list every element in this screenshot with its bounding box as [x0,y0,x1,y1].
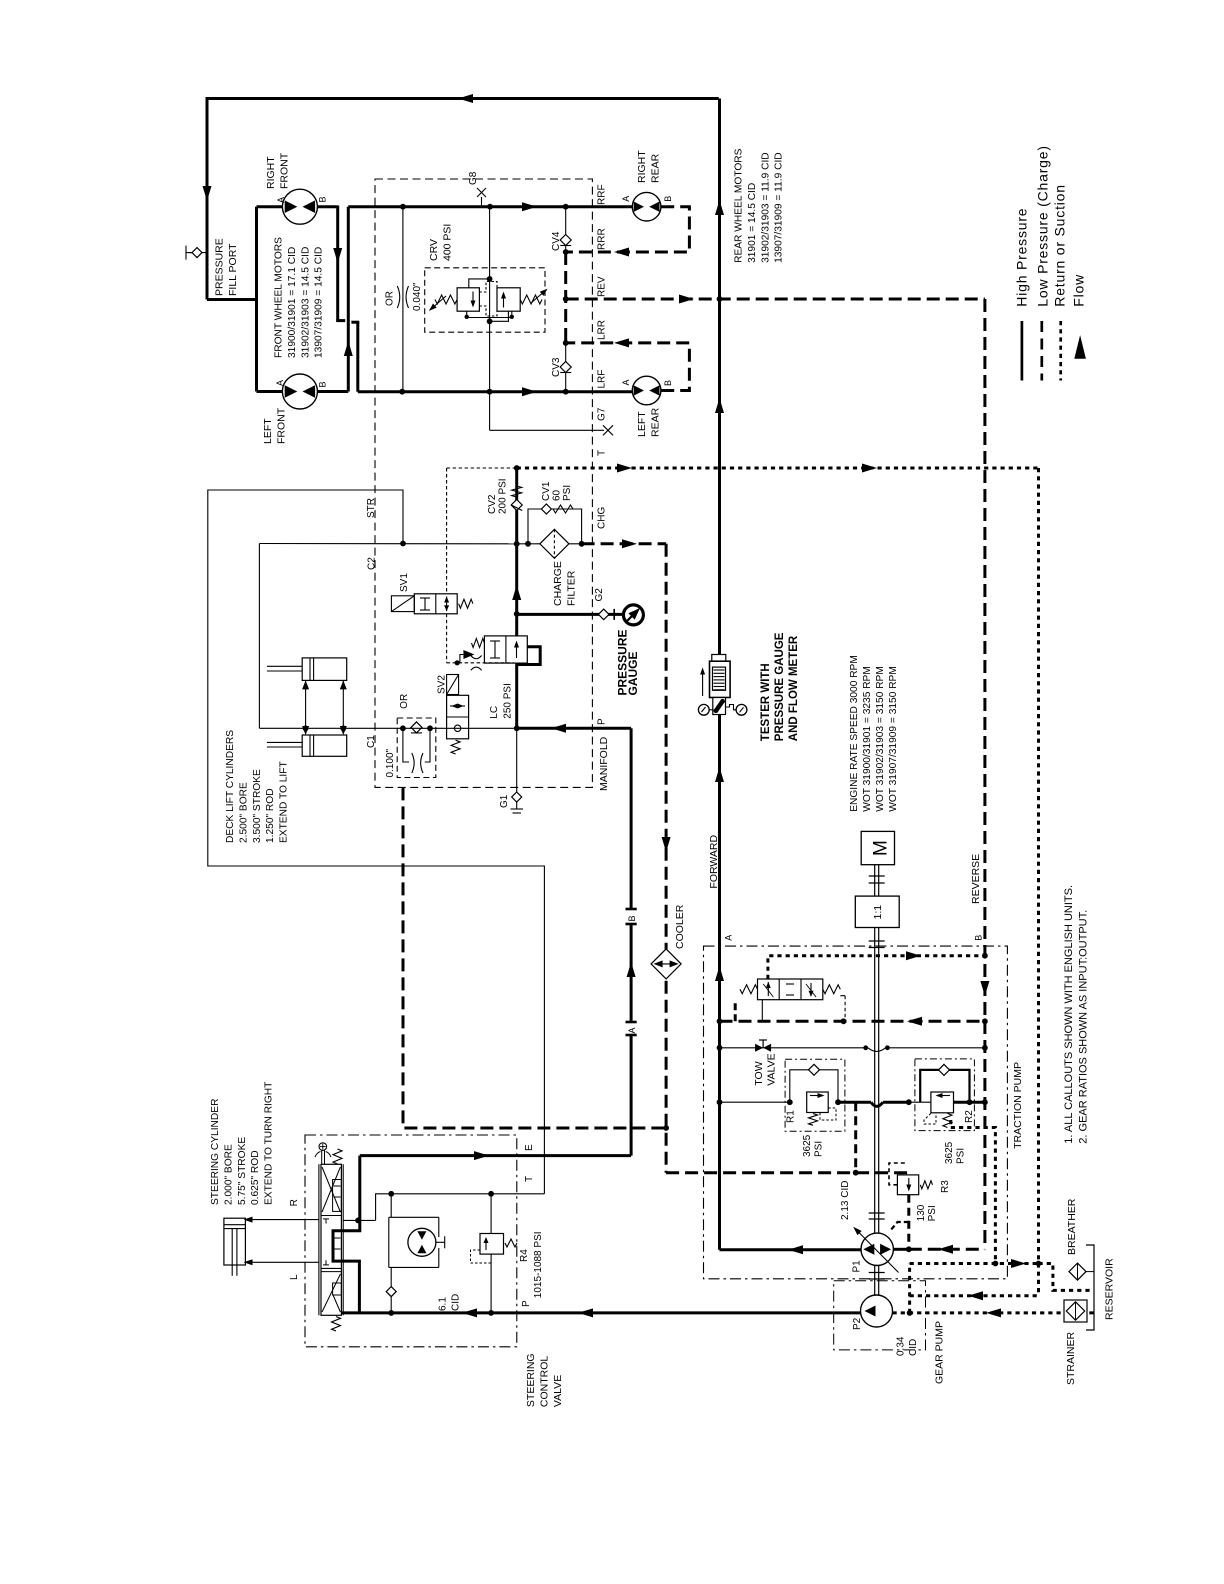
svg-text:FILTER: FILTER [565,570,577,606]
wire: relief cross line R1 side [720,1101,790,1103]
pilot R1 [820,1108,836,1120]
junction [717,1018,723,1024]
svg-text:FILL PORT: FILL PORT [227,243,239,296]
pilot orifice [471,656,482,659]
wire: gerotor to P check [390,1267,392,1286]
svg-text:A: A [621,196,631,202]
svg-text:0.100": 0.100" [385,748,396,777]
junction [388,1191,394,1197]
svg-text:B: B [663,380,673,386]
svg-text:LC: LC [489,706,500,719]
motor RIGHT FRONT [282,189,317,224]
svg-text:DECK LIFT CYLINDERS: DECK LIFT CYLINDERS [225,730,236,843]
svg-text:CV2: CV2 [487,494,498,514]
svg-text:REAR WHEEL MOTORS: REAR WHEEL MOTORS [734,148,745,263]
shaft M to gearbox [874,865,876,896]
check valve CV4 [560,235,571,246]
svg-text:3625: 3625 [944,1141,955,1164]
svg-text:PSI: PSI [956,1148,967,1164]
svg-text:A: A [276,197,286,203]
flow arrow left [462,1308,477,1317]
check valve CV3 [560,362,571,373]
svg-text:0.040": 0.040" [412,282,423,311]
svg-text:LRR: LRR [597,320,608,340]
cylinder deck lift lower [302,735,347,756]
svg-text:1015-1088 PSI: 1015-1088 PSI [533,1231,544,1298]
svg-text:PSI: PSI [814,1141,825,1157]
wire: crossover V3 down to RF line [356,322,359,392]
charge filter [540,529,569,558]
junction [514,541,520,547]
pilot step to P1 case [890,1222,909,1231]
pilot dotted net SV1/LC [447,467,517,469]
junction [563,389,569,395]
svg-text:2.13 CID: 2.13 CID [840,1181,851,1220]
svg-text:WOT 31902/31903 = 3150 RPM: WOT 31902/31903 = 3150 RPM [875,666,886,812]
wire: T net from valve [344,1219,376,1221]
svg-text:FORWARD: FORWARD [708,835,720,889]
cylinder port lines [305,680,307,728]
svg-text:1. ALL CALLOUTS SHOWN WITH ENG: 1. ALL CALLOUTS SHOWN WITH ENGLISH UNITS… [1063,885,1075,1144]
svg-text:PRESSURE GAUGE: PRESSURE GAUGE [774,632,786,741]
wire: CHG line east dashed [582,542,667,545]
cooler [651,949,681,979]
junction [399,389,405,395]
adjust arrow left [431,296,447,310]
wire: charge drop from manifold [403,787,666,1128]
flow arrow down [662,837,671,852]
svg-text:GAUGE: GAUGE [626,651,640,695]
svg-text:WOT 31907/31909 = 3150 RPM: WOT 31907/31909 = 3150 RPM [888,666,899,812]
svg-text:1.250" ROD: 1.250" ROD [265,788,276,843]
spring R1 [809,1114,818,1126]
steering handwheel [319,1143,327,1151]
flow arrow right on RF line [522,387,537,396]
junction [563,204,569,210]
svg-text:GEAR PUMP: GEAR PUMP [934,1321,946,1384]
flow arrow right [474,1151,489,1160]
relief R4 branch [490,1194,492,1234]
wire: return to reservoir [1039,1264,1093,1291]
spring left [435,295,457,304]
svg-text:RIGHT: RIGHT [636,150,648,183]
flow arrows up on forward [715,200,724,215]
wire: P1 right port to reverse [893,1248,908,1251]
svg-text:A: A [627,1027,637,1033]
svg-text:CONTROL: CONTROL [538,1356,550,1407]
svg-text:31902/31903 = 14.5 CID: 31902/31903 = 14.5 CID [300,247,311,358]
spring R3 [920,1181,932,1189]
pump P1 variable [861,1233,893,1265]
svg-text:2.500" BORE: 2.500" BORE [238,782,249,843]
relief R1 enclosure [785,1059,845,1131]
svg-text:5.75" STROKE: 5.75" STROKE [237,1137,248,1205]
strainer [1064,1300,1087,1322]
wire: gerotor branch [390,1194,392,1218]
svg-text:RESERVOIR: RESERVOIR [1103,1258,1115,1320]
svg-text:G7: G7 [597,407,608,421]
svg-text:STRAINER: STRAINER [1065,1331,1077,1385]
valve CRV enclosure [425,268,545,332]
flow arrow right [862,464,877,473]
svg-text:0.34: 0.34 [896,1336,907,1356]
svg-text:OR: OR [399,694,410,709]
svg-text:3.500" STROKE: 3.500" STROKE [252,769,263,843]
bypass orifice loop [403,728,409,762]
port G2 check [598,609,609,620]
flow arrow up [512,585,521,600]
relief valve R2 [931,1092,954,1113]
steering enclosure [305,1135,517,1347]
motor RIGHT REAR [632,192,661,221]
svg-text:MANIFOLD: MANIFOLD [598,736,610,791]
gerotor motor [408,1228,436,1256]
flow arrow right [906,951,921,960]
wire: R2 to reverse [909,1101,931,1103]
wire: charge bus dashed [720,1020,985,1023]
svg-text:OR: OR [385,291,396,306]
flow arrow down [203,186,212,201]
pilot R2 [924,1113,936,1124]
wire: filter feed thin [517,543,540,545]
wire: P line to EP riser [517,727,631,730]
svg-text:VALVE: VALVE [552,1375,564,1407]
spring R2 [943,1113,952,1127]
spring steering bottom [332,1317,341,1332]
pilot R4 [471,1250,492,1263]
junction [514,465,520,471]
svg-text:A: A [275,380,285,386]
svg-text:PRESSURE: PRESSURE [214,238,226,296]
svg-text:G2: G2 [594,588,605,602]
wire: case drain to J1 [910,1262,1039,1265]
svg-text:T: T [524,1176,535,1182]
spring SV2 bottom [451,740,460,754]
svg-text:Return or Suction: Return or Suction [1052,184,1068,307]
relief valve R1 [807,1092,829,1113]
relief R3 [897,1175,918,1195]
flow arrow right [617,464,632,473]
relief cartridge right [497,288,520,311]
tester flow meter [712,655,726,662]
wire: right-front B to crossover [317,205,337,208]
junction [563,249,569,255]
flow arrow right [679,295,694,304]
flow arrow left [788,1245,803,1254]
svg-text:M: M [871,840,892,856]
orifice OR 0.040 [397,286,399,308]
wire: G2 gauge line [517,613,624,616]
flow arrow left [968,1291,983,1300]
valve LC load control [484,636,527,663]
svg-text:R3: R3 [940,1180,951,1193]
wire: EP riser steering E to manifold P [630,728,633,909]
svg-text:B: B [663,196,673,202]
orifice line OR [402,207,404,392]
spring SV1 right [459,599,473,608]
pilot R3 [889,1163,905,1185]
junction [487,276,493,282]
wire: R2 drain drop [951,1128,996,1264]
svg-text:B: B [318,381,328,387]
svg-text:High Pressure: High Pressure [1014,208,1030,307]
svg-text:CHG: CHG [597,507,608,529]
svg-text:T: T [597,450,608,456]
steering valve top cell [322,1167,340,1212]
shaft hop thick [871,1102,883,1106]
junction [487,204,493,210]
wire: C1 line [259,727,516,729]
svg-text:Flow: Flow [1070,274,1086,307]
wire: stub to right-front A [257,205,284,208]
svg-text:REV: REV [597,276,608,297]
steering gerotor frame [389,1216,439,1218]
svg-text:250 PSI: 250 PSI [502,683,513,719]
svg-text:0.625" ROD: 0.625" ROD [250,1150,261,1205]
wire: top HP line from forward line to front motors [207,97,719,100]
svg-text:G1: G1 [499,794,510,808]
check loop R1 [790,1070,838,1102]
wire: filter out [569,543,593,545]
svg-text:WOT 31900/31901 = 3235 RPM: WOT 31900/31901 = 3235 RPM [862,666,873,812]
svg-text:CV1: CV1 [541,481,552,501]
spring servo left [740,985,758,994]
svg-text:CID: CID [451,1294,462,1311]
svg-text:TOW: TOW [753,1061,765,1085]
svg-text:200 PSI: 200 PSI [498,478,509,514]
junction [853,1170,859,1176]
svg-text:2. GEAR RATIOS SHOWN AS INPUT:: 2. GEAR RATIOS SHOWN AS INPUT:OUTPUT. [1077,910,1089,1144]
check column CV4/CV3 [565,207,567,252]
wire: T return bus dotted [517,467,1039,470]
wire: crossover V2 up to LF line [347,207,350,392]
solenoid box SV1 [391,596,414,612]
junction [663,1125,669,1131]
tester valve block [713,698,726,715]
svg-text:REAR: REAR [649,153,661,183]
flow arrow down on V1 [333,248,342,263]
pilot links [469,279,490,288]
svg-text:TRACTION PUMP: TRACTION PUMP [1012,1062,1024,1149]
spring servo right [823,985,841,994]
svg-text:VALVE: VALVE [766,1053,778,1085]
svg-text:RRF: RRF [597,184,608,205]
junction [717,296,723,302]
valve SV2 [447,695,469,739]
flow arrow left [614,338,629,347]
port G1 [516,728,518,792]
svg-text:PSI: PSI [927,1205,938,1221]
svg-text:AND FLOW METER: AND FLOW METER [788,635,800,741]
LC bypass loop thick [517,647,541,665]
wire: cooler line down [665,544,668,1173]
svg-text:60: 60 [552,489,563,501]
wire: RF line east [358,390,633,393]
svg-text:REAR: REAR [649,407,661,437]
svg-text:STR: STR [366,498,377,518]
svg-text:CRV: CRV [428,239,440,261]
check valve CV1 bypass loop [528,509,582,544]
tow valve [763,1044,771,1052]
svg-text:2.000" BORE: 2.000" BORE [223,1144,234,1205]
svg-text:400 PSI: 400 PSI [441,224,453,261]
svg-text:BREATHER: BREATHER [1066,1198,1078,1255]
svg-text:31900/31901 = 17.1 CID: 31900/31901 = 17.1 CID [287,247,298,358]
flow arrow up on V2 [344,341,353,356]
svg-text:LRF: LRF [597,370,608,389]
flow arrow left [578,1308,593,1317]
junction [907,1310,913,1316]
steering cylinder [224,1218,246,1265]
wire: E line east [360,1154,631,1157]
svg-text:EXTEND TO TURN RIGHT: EXTEND TO TURN RIGHT [264,1082,275,1205]
svg-text:130: 130 [916,1204,927,1221]
flow arrow left [938,1245,953,1254]
flow arrow right [1011,1259,1026,1268]
svg-text:1:1: 1:1 [872,905,884,920]
engine motor M [861,831,894,864]
shaft hop on tow line [868,1048,886,1052]
svg-text:B: B [974,935,984,941]
wire: steering P line [342,1311,861,1314]
wire: E port stair [333,1156,360,1313]
steering valve body [321,1164,341,1315]
connector ticks B [626,908,637,911]
svg-text:R1: R1 [786,1110,797,1123]
svg-text:A: A [724,935,734,941]
svg-text:3625: 3625 [802,1134,813,1157]
junction [487,389,493,395]
shaft gearbox to P1 [874,928,876,1234]
adjust arrow right [531,290,546,303]
spring right [520,295,542,304]
manifold enclosure dashed box [375,179,592,787]
orifice check OR enclosure [397,718,436,778]
svg-text:FRONT WHEEL MOTORS: FRONT WHEEL MOTORS [274,237,285,358]
svg-text:P: P [597,718,608,725]
junction [993,1261,999,1267]
wire: charge dotted into servo [768,956,985,979]
pressure gauge [623,605,643,625]
valve SV1 solenoid [414,594,457,614]
wire: left vertical to fill-port corner [206,97,209,300]
svg-text:SV2: SV2 [437,675,448,694]
junction [717,1045,723,1051]
wire: C2 left drop [258,544,260,729]
tester gauges [709,709,713,711]
svg-text:P: P [521,1300,532,1307]
shaft P1 to P2 [874,1266,876,1296]
flow arrow left [907,1017,922,1026]
svg-text:P1: P1 [852,1260,863,1273]
svg-text:R2: R2 [964,1110,975,1123]
steering valve bottom cell [321,1271,341,1273]
wire: suction link mid [910,1294,1039,1297]
wire: A-feed vertical [255,207,258,392]
traction pump enclosure [704,946,1008,1279]
svg-text:CV3: CV3 [551,357,562,377]
svg-text:6.1: 6.1 [438,1297,449,1311]
pilot arrow into LC [460,655,463,663]
wire: CV column dashed mid [564,252,567,343]
reservoir bracket [1086,1245,1094,1330]
svg-text:LEFT: LEFT [262,418,274,444]
wire: FORWARD line [718,99,721,1250]
wire: charge vertical w CV2 [515,468,518,636]
wire: T return drop [1037,468,1040,1296]
check line to CV3 [565,343,567,392]
wire: suction P2 to strainer [893,1311,1095,1314]
flow arrow right [622,539,637,548]
svg-text:CHARGE: CHARGE [552,561,564,606]
solenoid box SV2 [447,675,459,695]
svg-text:31902/31903 = 11.9 CID: 31902/31903 = 11.9 CID [760,152,771,263]
svg-text:FRONT: FRONT [275,407,287,444]
svg-text:CV4: CV4 [551,231,562,251]
relief cartridge left [457,288,479,311]
svg-text:B: B [318,196,328,202]
svg-text:REVERSE: REVERSE [970,854,982,904]
svg-text:31901 = 14.5 CID: 31901 = 14.5 CID [747,183,758,263]
valve pump servo [758,979,823,1000]
svg-text:L: L [289,1274,300,1280]
svg-text:B: B [627,915,637,921]
wire: REV bus dashed [566,298,985,301]
junction [563,340,569,346]
flow arrow right on LF line [522,202,537,211]
svg-text:STEERING CYLINDER: STEERING CYLINDER [210,1099,221,1205]
svg-text:G8: G8 [468,171,479,185]
wire: crossover V1 down [336,206,339,321]
junction [514,725,520,731]
pilot link left [734,1002,737,1021]
svg-text:C1: C1 [366,735,377,748]
wire: R line to cylinder [252,1219,319,1221]
junction [400,204,406,210]
svg-text:E: E [524,1144,535,1151]
wire: REVERSE line [983,299,986,1249]
wire: LF line east [348,205,632,208]
wire: crossover jog [336,319,345,322]
breather [1069,1263,1086,1280]
port G7 line [490,429,604,431]
spring steering top [333,1149,342,1164]
motor LEFT REAR [632,376,661,405]
svg-text:13907/31909 = 11.9 CID: 13907/31909 = 11.9 CID [774,152,785,263]
steering valve mid cell [323,1218,329,1220]
port G8 [481,197,483,207]
pressure fill port [189,252,207,254]
svg-text:FRONT: FRONT [278,152,290,189]
junction [563,296,569,302]
wire: drain riser [908,1264,911,1313]
svg-text:LEFT: LEFT [636,411,648,437]
svg-text:C2: C2 [367,557,378,570]
wire: center tap down to charge [854,1102,857,1173]
svg-text:SV1: SV1 [399,573,410,592]
svg-text:TESTER WITH: TESTER WITH [760,663,772,741]
junction [400,541,406,547]
svg-text:CID: CID [908,1339,919,1356]
wire: tow valve line [720,1047,866,1049]
svg-text:PSI: PSI [562,485,573,501]
svg-text:13907/31909 = 14.5 CID: 13907/31909 = 14.5 CID [314,247,325,358]
flow arrow down [980,981,989,996]
wire: right-rear B loop dashed [566,207,690,252]
check valve CV2 w spring [512,486,522,497]
gerotor link [436,1241,445,1243]
svg-text:ENGINE RATE SPEED 3000 RPM: ENGINE RATE SPEED 3000 RPM [849,655,860,812]
